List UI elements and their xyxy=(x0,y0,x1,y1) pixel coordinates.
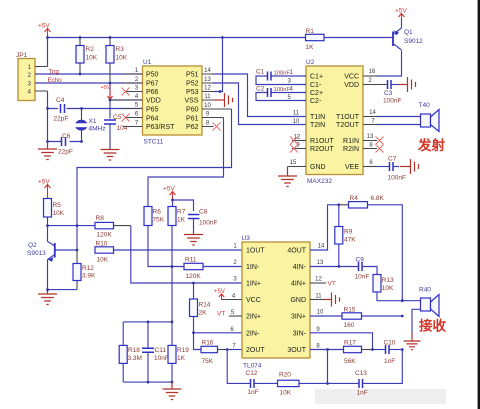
svg-text:Q2: Q2 xyxy=(28,242,37,249)
wire VEE pin6 to C7 xyxy=(363,160,390,167)
svg-text:VT: VT xyxy=(328,281,336,288)
crystal X1 4MHz xyxy=(75,109,106,142)
capacitor C8 xyxy=(188,209,217,235)
node rail/P53 branch xyxy=(221,36,224,39)
svg-text:R4: R4 xyxy=(350,195,359,202)
svg-text:10: 10 xyxy=(317,310,324,316)
node R2/Trig xyxy=(79,73,82,76)
svg-text:C13: C13 xyxy=(355,370,367,377)
svg-text:R1IN: R1IN xyxy=(343,138,359,145)
svg-text:接收: 接收 xyxy=(419,318,446,334)
connector JP1 xyxy=(16,52,48,101)
resistor R2 xyxy=(76,38,98,75)
svg-text:VSS: VSS xyxy=(184,98,198,105)
U3 left pin numbers xyxy=(230,244,237,350)
node R14 top / 1IN+ row xyxy=(192,282,195,285)
R1OUT/R2OUT stubs with no-ERC marks xyxy=(290,135,306,153)
svg-text:3OUT: 3OUT xyxy=(287,347,306,354)
svg-text:14: 14 xyxy=(369,110,376,116)
svg-text:11: 11 xyxy=(293,111,300,117)
wire 4IN- pin13 row xyxy=(310,266,359,268)
ground (U3 GND pin11, sideways) xyxy=(310,293,340,307)
power symbol +5V (Q1 emitter) xyxy=(395,8,407,29)
svg-text:R14: R14 xyxy=(199,302,211,309)
op-amp U2 MAX232 body xyxy=(306,59,363,185)
right page border line xyxy=(478,0,480,409)
svg-text:P66: P66 xyxy=(146,89,159,96)
resistor R10 xyxy=(95,241,114,264)
svg-text:10K: 10K xyxy=(382,285,394,292)
svg-text:VDD: VDD xyxy=(344,82,359,89)
capacitor C1 xyxy=(256,69,306,85)
power symbol +5V (U3 VCC pin4) xyxy=(214,289,242,300)
svg-text:S9012: S9012 xyxy=(404,38,423,45)
svg-text:3.3M: 3.3M xyxy=(128,355,142,362)
node R8 row / base branch xyxy=(76,224,79,227)
svg-text:C4: C4 xyxy=(56,97,65,104)
svg-text:C9: C9 xyxy=(356,257,365,264)
svg-text:4IN+: 4IN+ xyxy=(291,281,306,288)
svg-text:R9: R9 xyxy=(344,229,353,236)
node emitter/R12 xyxy=(46,288,49,291)
net label VT on 2IN+ pin5 xyxy=(217,311,242,318)
U1 right pin stubs 8-14 xyxy=(202,68,232,127)
ground (C8) xyxy=(184,235,203,246)
resistor R3 xyxy=(106,38,128,84)
capacitor C7 xyxy=(388,156,406,182)
svg-text:75K: 75K xyxy=(153,217,165,224)
capacitor C13 xyxy=(355,370,368,397)
resistor R19 xyxy=(168,322,189,382)
wire R8 right down to U3 1IN+ row xyxy=(131,226,242,283)
svg-text:T2OUT: T2OUT xyxy=(336,122,360,129)
svg-text:R6: R6 xyxy=(153,209,162,216)
svg-text:C2+: C2+ xyxy=(310,90,323,97)
svg-text:10: 10 xyxy=(204,103,211,109)
wire right bus down to bottom rail xyxy=(367,350,403,384)
node P53 xyxy=(219,90,222,93)
svg-text:11: 11 xyxy=(315,294,322,300)
resistor R14 xyxy=(190,283,211,350)
svg-text:R16: R16 xyxy=(202,339,214,346)
wire RC filter top rail xyxy=(123,321,172,323)
svg-text:100nF: 100nF xyxy=(274,71,291,77)
wire P60 to Q2 base network xyxy=(77,109,232,226)
svg-text:10: 10 xyxy=(293,119,300,125)
node rail/R2 xyxy=(79,36,82,39)
node rail/JP1 xyxy=(46,36,49,39)
svg-text:10nF: 10nF xyxy=(355,274,370,281)
wire 3IN- pin9 to R17/C10 node xyxy=(310,333,373,350)
power marker +5V (VDD) xyxy=(101,85,113,100)
net label VT on 4IN+ pin12 xyxy=(310,281,336,288)
svg-text:C11: C11 xyxy=(155,347,167,354)
svg-text:1IN+: 1IN+ xyxy=(246,281,261,288)
power symbol +5V (top left) xyxy=(38,23,51,38)
svg-text:1nF: 1nF xyxy=(357,390,368,397)
node R17/C10/3IN- xyxy=(371,348,374,351)
wire bias node to C8 xyxy=(173,200,194,211)
svg-text:R5: R5 xyxy=(53,202,62,209)
svg-text:100nF: 100nF xyxy=(388,175,406,182)
resistor R8 xyxy=(95,215,131,239)
node R19 top xyxy=(171,321,174,324)
wire VCC pin16 to Q1 collector xyxy=(363,51,402,77)
svg-text:C2: C2 xyxy=(256,86,265,93)
svg-text:C1-: C1- xyxy=(310,82,322,89)
wire VDD row to U1 pin4 xyxy=(110,99,143,101)
wire 3IN+ pin10 row to R15 xyxy=(310,315,342,317)
wire T2OUT to T40 xyxy=(363,119,421,125)
node C10 right xyxy=(401,348,404,351)
wire T1OUT to T40 xyxy=(363,110,421,117)
svg-text:R13: R13 xyxy=(382,277,394,284)
U3 right pin stubs / numbers xyxy=(315,244,325,350)
power symbol +5V (R5 top) xyxy=(38,179,51,199)
capacitor C5 104 (VDD decoupling) xyxy=(104,114,128,149)
node R13 / R40 row xyxy=(401,299,404,302)
node R16 right / 2OUT xyxy=(226,348,229,351)
svg-text:R17: R17 xyxy=(344,339,356,346)
R1IN/R2IN stubs with no-ERC marks xyxy=(363,134,384,153)
svg-text:C6: C6 xyxy=(62,133,71,140)
ground (R40) xyxy=(404,333,421,350)
svg-text:T2IN: T2IN xyxy=(310,122,325,129)
svg-text:R11: R11 xyxy=(185,257,197,264)
svg-text:R19: R19 xyxy=(177,347,189,354)
svg-text:U3: U3 xyxy=(242,235,251,242)
svg-text:X1: X1 xyxy=(89,118,97,125)
node R7 / 1IN- row xyxy=(171,265,174,268)
resistor R17 xyxy=(344,339,373,365)
ground (Q2 emitter) xyxy=(38,294,57,305)
svg-text:P51: P51 xyxy=(186,72,199,79)
resistor R5 xyxy=(44,199,65,226)
svg-text:2OUT: 2OUT xyxy=(246,347,265,354)
ground (below C6/JP net) xyxy=(38,142,57,160)
wire 3OUT branch down to bottom rail xyxy=(327,350,329,384)
svg-text:100nF: 100nF xyxy=(383,98,401,105)
svg-text:VCC: VCC xyxy=(246,297,261,304)
svg-text:VEE: VEE xyxy=(345,164,359,171)
op-amp U1 STC11 body xyxy=(143,59,203,146)
svg-text:P61: P61 xyxy=(186,116,199,123)
svg-text:10K: 10K xyxy=(86,55,98,62)
node R19 bottom / ground xyxy=(171,381,174,384)
wire P53 to +5V rail xyxy=(214,38,223,92)
svg-text:3IN-: 3IN- xyxy=(293,330,307,337)
resistor R4 xyxy=(339,195,403,301)
node C11 bottom xyxy=(147,381,150,384)
svg-text:C7: C7 xyxy=(388,156,397,163)
node +5V bias xyxy=(171,199,174,202)
wire R3 bottom to VDD row and C5 xyxy=(109,83,111,119)
svg-text:MAX232: MAX232 xyxy=(307,178,332,185)
svg-text:C1+: C1+ xyxy=(310,74,323,81)
svg-text:VT: VT xyxy=(217,311,225,318)
wire R12 bottom to emitter xyxy=(48,289,78,291)
svg-text:100nF: 100nF xyxy=(274,87,291,93)
svg-text:R12: R12 xyxy=(82,265,94,272)
svg-text:P67: P67 xyxy=(146,81,159,88)
no-ERC mark U1 pin3 xyxy=(122,88,130,96)
svg-text:C3: C3 xyxy=(384,90,393,97)
svg-text:47K: 47K xyxy=(344,237,356,244)
svg-text:6.8K: 6.8K xyxy=(371,195,385,202)
capacitor C3 xyxy=(383,80,401,105)
svg-text:2IN+: 2IN+ xyxy=(246,314,261,321)
svg-text:R40: R40 xyxy=(419,287,431,294)
resistor R15 xyxy=(342,306,402,329)
node C6 right / X1 bottom xyxy=(80,140,83,143)
svg-text:R2OUT: R2OUT xyxy=(310,146,334,153)
wire Trig net JP1.2 to U1.P50 xyxy=(35,73,143,75)
svg-text:U1: U1 xyxy=(143,59,152,66)
resistor R20 xyxy=(278,371,328,396)
node 3OUT / bottom rail branch xyxy=(326,348,329,351)
capacitor C6 xyxy=(48,133,82,156)
wire JP1 pin4 down to C4 row xyxy=(47,91,49,109)
svg-text:10nF: 10nF xyxy=(154,355,169,362)
svg-text:R18: R18 xyxy=(128,347,140,354)
svg-text:56K: 56K xyxy=(344,358,356,365)
svg-text:P53: P53 xyxy=(186,89,199,96)
transducer R40 (receive) xyxy=(402,287,439,334)
svg-text:C12: C12 xyxy=(246,370,258,377)
resistor R16 xyxy=(201,339,227,365)
svg-text:R3: R3 xyxy=(116,46,125,53)
node C4 right / X1 top xyxy=(80,107,83,110)
svg-text:12: 12 xyxy=(315,277,322,283)
svg-text:U2: U2 xyxy=(306,59,315,66)
transducer T40 (transmit) xyxy=(419,102,440,132)
svg-text:+5V: +5V xyxy=(38,23,50,30)
svg-text:3IN+: 3IN+ xyxy=(291,314,306,321)
svg-text:4MHz: 4MHz xyxy=(89,126,106,133)
wire VDD pin2 to C3 xyxy=(363,78,388,85)
svg-text:R7: R7 xyxy=(177,209,186,216)
node C11 top xyxy=(147,321,150,324)
svg-text:C1: C1 xyxy=(256,69,265,76)
svg-text:15: 15 xyxy=(290,160,297,166)
svg-text:C5: C5 xyxy=(113,114,122,121)
svg-text:+5V: +5V xyxy=(214,289,225,295)
svg-text:R2: R2 xyxy=(86,46,95,53)
node rail/R3 xyxy=(109,36,112,39)
svg-text:14: 14 xyxy=(204,68,211,74)
node R15 right xyxy=(401,315,404,318)
no-ERC mark U1 pin6 xyxy=(122,114,130,122)
svg-text:P64: P64 xyxy=(146,116,159,123)
svg-text:10K: 10K xyxy=(53,210,65,217)
wire P61 to R6 top xyxy=(148,118,224,207)
node R9 bottom / 4IN- xyxy=(338,265,341,268)
node R4/R9 junction xyxy=(337,203,340,206)
svg-text:1IN-: 1IN- xyxy=(246,264,260,271)
svg-text:Echo: Echo xyxy=(48,77,63,84)
wire bottom rail R20 to C13 xyxy=(328,382,360,384)
wire P51 to U2 T1IN xyxy=(214,74,307,117)
resistor R18 xyxy=(119,322,142,382)
no-ERC mark U1 pin8 xyxy=(213,123,221,131)
wire 2OUT row to U3 xyxy=(227,349,242,351)
wire +5V rail (y=37.5) xyxy=(48,37,306,39)
power symbol +5V (bias node) xyxy=(163,186,176,201)
node Q2 base / R10 / R12 xyxy=(76,249,79,252)
ground (C7, sideways) xyxy=(400,159,419,174)
capacitor C9 xyxy=(355,257,378,281)
svg-text:11: 11 xyxy=(204,94,211,100)
svg-text:14: 14 xyxy=(318,244,325,250)
resistor R1 xyxy=(306,28,394,51)
svg-text:Q1: Q1 xyxy=(404,29,413,36)
svg-text:GND: GND xyxy=(310,164,326,171)
svg-text:1OUT: 1OUT xyxy=(246,248,265,255)
svg-text:P52: P52 xyxy=(186,81,199,88)
svg-text:1K: 1K xyxy=(306,44,315,51)
svg-text:100nF: 100nF xyxy=(199,220,217,227)
U1 left pin stubs 1-7 xyxy=(110,68,143,127)
svg-text:T1IN: T1IN xyxy=(310,114,325,121)
wire R10 right to U3 1OUT (row1) xyxy=(114,249,243,251)
resistor R11 xyxy=(184,257,242,281)
transistor Q1 S9012 xyxy=(393,28,423,50)
svg-text:1nF: 1nF xyxy=(384,358,395,365)
svg-text:1K: 1K xyxy=(177,355,186,362)
svg-text:+5V: +5V xyxy=(38,179,50,186)
svg-text:4IN-: 4IN- xyxy=(293,264,307,271)
svg-text:R20: R20 xyxy=(279,371,291,378)
svg-text:2K: 2K xyxy=(199,310,208,317)
svg-text:120K: 120K xyxy=(97,232,113,239)
ground VSS (sideways) xyxy=(214,93,233,107)
GND pin 15 stub and ground xyxy=(278,160,306,187)
resistor R9 xyxy=(335,205,356,267)
wire RC filter bottom rail xyxy=(123,381,172,383)
wire XTAL row (P65) xyxy=(48,108,143,110)
op-amp U3 TL074 body xyxy=(242,235,311,370)
wire 4OUT pin14 up to R4 xyxy=(310,205,339,250)
svg-text:4OUT: 4OUT xyxy=(287,248,306,255)
svg-text:P63/RST: P63/RST xyxy=(146,124,175,131)
svg-text:VCC: VCC xyxy=(344,74,359,81)
svg-text:T40: T40 xyxy=(419,102,431,109)
svg-text:10K: 10K xyxy=(116,55,128,62)
wire P52 to U2 T2IN xyxy=(214,83,307,125)
svg-text:13: 13 xyxy=(204,77,211,83)
wire 2IN- row xyxy=(194,332,243,334)
node R14 / 2IN- row xyxy=(192,331,195,334)
resistor R7 xyxy=(168,200,186,322)
svg-text:C8: C8 xyxy=(199,209,208,216)
wire base branch down xyxy=(76,226,78,250)
svg-text:22pF: 22pF xyxy=(54,116,69,123)
svg-text:75K: 75K xyxy=(202,358,214,365)
svg-text:R2IN: R2IN xyxy=(343,146,359,153)
capacitor C11 xyxy=(142,322,169,382)
faint watermark box (bottom right) xyxy=(315,389,446,404)
node R5 bottom xyxy=(46,224,49,227)
svg-text:16: 16 xyxy=(369,69,376,75)
ground (RC filter) xyxy=(163,382,182,399)
svg-text:P60: P60 xyxy=(186,107,199,114)
svg-text:发射: 发射 xyxy=(417,137,445,153)
svg-text:P62: P62 xyxy=(186,124,199,131)
svg-text:R1OUT: R1OUT xyxy=(310,138,334,145)
node VDD xyxy=(109,99,112,102)
capacitor C2 xyxy=(256,86,306,102)
wire +5V to JP1 pin1 xyxy=(47,38,49,67)
svg-text:3.9K: 3.9K xyxy=(82,273,96,280)
resistor R13 xyxy=(373,275,402,301)
node C6 left xyxy=(46,140,49,143)
svg-text:13: 13 xyxy=(367,134,374,140)
svg-text:10K: 10K xyxy=(280,390,292,397)
svg-text:12: 12 xyxy=(204,86,211,92)
svg-text:2IN-: 2IN- xyxy=(246,330,260,337)
svg-text:TL074: TL074 xyxy=(243,363,262,370)
wire Echo net JP1.3 to U1.P67 xyxy=(35,82,143,84)
svg-text:13: 13 xyxy=(317,260,324,266)
wire R5/R8 row xyxy=(48,225,96,227)
svg-text:1K: 1K xyxy=(177,217,186,224)
transistor Q2 S9013 xyxy=(27,226,77,294)
svg-text:P50: P50 xyxy=(146,72,159,79)
svg-text:C10: C10 xyxy=(384,339,396,346)
node R3/Echo xyxy=(109,82,112,85)
resistor R12 xyxy=(73,250,96,290)
ground (C3, sideways) xyxy=(399,77,416,92)
svg-text:VDD: VDD xyxy=(146,98,161,105)
svg-text:GND: GND xyxy=(290,297,306,304)
node C4 left xyxy=(46,107,49,110)
svg-text:STC11: STC11 xyxy=(144,139,164,146)
svg-text:T1OUT: T1OUT xyxy=(336,114,360,121)
svg-text:120K: 120K xyxy=(186,273,202,280)
svg-text:P65: P65 xyxy=(146,107,159,114)
svg-text:22pF: 22pF xyxy=(58,149,73,156)
node bottom rail / R20 xyxy=(326,382,329,385)
ground (below C5) xyxy=(101,150,120,161)
svg-text:1nF: 1nF xyxy=(248,389,259,396)
svg-text:+5V: +5V xyxy=(163,186,175,193)
svg-text:160: 160 xyxy=(344,322,355,329)
svg-text:S9013: S9013 xyxy=(27,250,46,257)
svg-text:C2-: C2- xyxy=(310,98,322,105)
wire JP pin4 net vertical through C4/C6 xyxy=(47,109,49,142)
svg-text:R8: R8 xyxy=(96,215,105,222)
capacitor C4 xyxy=(54,97,69,123)
wire 3OUT pin8 row xyxy=(310,349,344,351)
svg-text:10K: 10K xyxy=(97,257,109,264)
svg-text:Trig: Trig xyxy=(49,69,60,76)
wire 2OUT down to bottom rail xyxy=(227,350,250,384)
capacitor C12 xyxy=(246,370,278,396)
resistor R6 xyxy=(144,207,184,267)
capacitor C10 xyxy=(373,339,403,365)
